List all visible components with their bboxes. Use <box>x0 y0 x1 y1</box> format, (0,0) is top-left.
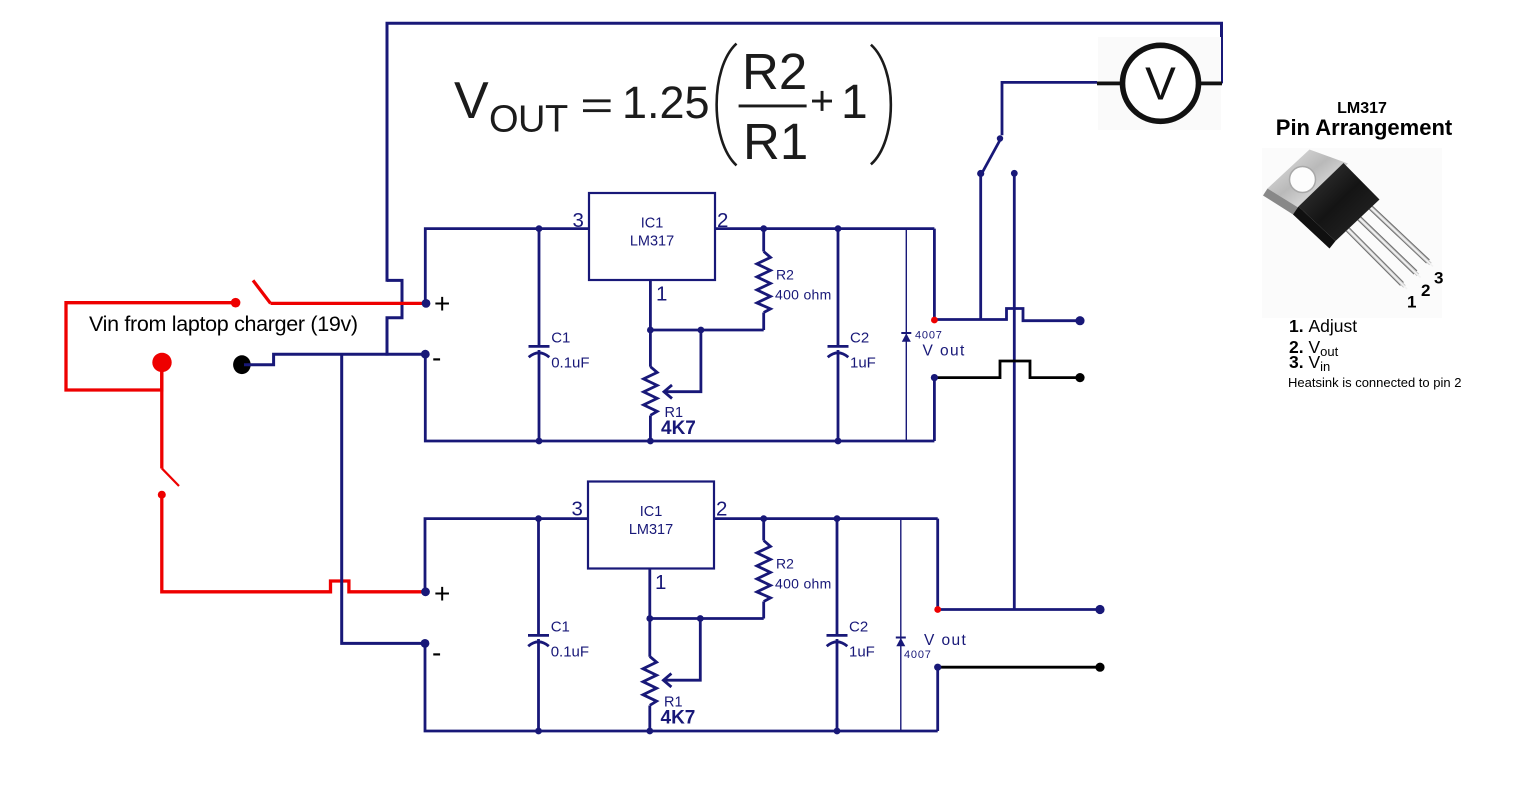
wire adjust mid line <box>650 329 763 332</box>
diode D1 symbol <box>901 332 911 334</box>
wire bottom rail <box>425 354 934 441</box>
svg-text:Heatsink is connected to pin 2: Heatsink is connected to pin 2 <box>1288 375 1461 390</box>
svg-text:3: 3 <box>572 498 583 521</box>
capacitor C1 <box>529 229 550 441</box>
svg-text:1uF: 1uF <box>850 355 876 372</box>
formula fraction bar <box>739 105 807 108</box>
node bottom output minus dot <box>1095 663 1104 672</box>
node C1 top dot <box>535 515 542 522</box>
op-amp U1 IC1 LM317 box <box>589 193 715 280</box>
svg-text:Pin Arrangement: Pin Arrangement <box>1276 115 1453 140</box>
wire navy top output plus with hop <box>934 309 1080 321</box>
node minus terminal dot <box>421 639 430 648</box>
node mid line dot right <box>698 327 705 334</box>
package metal tab <box>1268 150 1349 211</box>
formula equals sign <box>583 99 611 102</box>
node switch contact dot A <box>977 170 984 177</box>
wire right edge upper segment <box>933 229 936 321</box>
VOLTMETER <box>1097 37 1222 130</box>
wire top rail right of IC <box>715 517 938 520</box>
formula plus <box>812 100 832 103</box>
potentiometer wiper arrow <box>663 619 700 681</box>
diode D1 column wire <box>905 229 907 441</box>
wire red to top circuit plus <box>271 302 426 305</box>
svg-text:400 ohm: 400 ohm <box>775 287 832 303</box>
svg-text:1: 1 <box>656 283 667 306</box>
capacitor C1 <box>528 519 549 731</box>
wire navy vertical to bottom circuit minus <box>342 354 425 643</box>
wire right edge lower segment <box>936 667 939 731</box>
svg-text:-: - <box>432 637 441 668</box>
wire adjust mid line <box>650 617 764 620</box>
resistor R4 <box>762 519 765 541</box>
resistor R3 potentiometer zigzag <box>643 657 657 706</box>
node R4 top dot <box>760 515 767 522</box>
node C1 bottom dot <box>536 438 543 445</box>
wire top border from left vertical to voltmeter right lead <box>387 23 1222 282</box>
svg-text:LM317: LM317 <box>630 234 674 250</box>
transistor TO-220 package photo <box>1263 150 1433 290</box>
wire R3 to bottom rail <box>648 706 651 732</box>
svg-text:4007: 4007 <box>904 649 932 661</box>
node mid line dot right <box>697 615 704 622</box>
svg-text:2: 2 <box>1421 281 1430 300</box>
node R3 bottom dot <box>646 728 653 735</box>
TOP BORDER WIRE LOOP <box>387 23 1222 355</box>
node mid line dot left <box>647 327 654 334</box>
svg-text:1: 1 <box>841 76 868 129</box>
svg-text:R2: R2 <box>776 556 794 572</box>
node output minus navy dot <box>931 374 938 381</box>
wire red input top loop <box>66 303 235 390</box>
node switch contact dot B <box>1011 170 1018 177</box>
resistor R1 potentiometer zigzag <box>644 367 658 416</box>
svg-text:R1: R1 <box>743 113 808 170</box>
node plus terminal dot <box>422 299 431 308</box>
wire red down to switch S2 <box>160 368 163 469</box>
svg-text:1.25: 1.25 <box>622 77 710 128</box>
svg-text:1: 1 <box>1407 293 1416 312</box>
svg-text:+: + <box>434 578 450 609</box>
formula right paren <box>871 45 891 165</box>
package leg 2 <box>1359 218 1415 272</box>
voltmeter left lead <box>1097 82 1123 86</box>
svg-text:V out: V out <box>923 343 966 360</box>
package leg 3 <box>1370 207 1428 261</box>
package leg 1 <box>1348 230 1402 285</box>
svg-text:-: - <box>432 342 441 373</box>
svg-text:Vin from laptop charger (19v): Vin from laptop charger (19v) <box>89 312 358 336</box>
wire IC pin1 down <box>648 569 651 657</box>
node C2 top dot <box>835 225 842 232</box>
diode D2 column wire <box>900 519 902 731</box>
capacitor C4 <box>827 519 848 731</box>
svg-text:400 ohm: 400 ohm <box>775 576 832 592</box>
potentiometer wiper arrow <box>664 330 701 392</box>
tab mounting hole <box>1290 167 1316 193</box>
wire navy voltmeter left feed <box>1002 82 1097 135</box>
node switch pivot dot <box>997 135 1003 141</box>
wire navy from black terminal to minus rails <box>244 354 425 365</box>
wire black bottom output minus <box>938 666 1100 669</box>
node output plus red dot <box>934 606 941 613</box>
LM317 PIN ARRANGEMENT PANEL <box>1262 100 1461 390</box>
node plus terminal dot <box>421 587 430 596</box>
wire navy from contact B down to bottom output <box>1013 173 1016 609</box>
photo background tint <box>1262 148 1442 318</box>
svg-text:V: V <box>454 72 489 130</box>
wire top rail left of IC <box>425 229 589 304</box>
node black input terminal <box>233 355 251 374</box>
wire black top output minus with hop <box>934 361 1080 378</box>
svg-text:V out: V out <box>924 632 967 649</box>
wire top rail right of IC <box>715 227 934 230</box>
node mid line dot left <box>646 615 653 622</box>
node red switch contact dot <box>158 491 166 499</box>
node C4 bottom dot <box>834 728 841 735</box>
node top output plus dot <box>1075 316 1084 325</box>
voltmeter right lead <box>1198 82 1222 86</box>
resistor R2 <box>762 229 765 252</box>
svg-text:LM317: LM317 <box>629 522 673 538</box>
wire R1 to bottom rail <box>649 416 652 442</box>
svg-text:R2: R2 <box>776 267 794 283</box>
wire left jog crossing red plus line <box>387 280 402 355</box>
svg-text:4007: 4007 <box>915 329 943 341</box>
node bottom output plus dot <box>1095 605 1104 614</box>
node red junction dot big <box>152 353 171 372</box>
node C1 top dot <box>536 225 543 232</box>
node output plus red dot <box>931 317 938 324</box>
svg-text:1. Adjust: 1. Adjust <box>1289 316 1357 336</box>
wire navy from contact A down to top output <box>979 174 982 320</box>
svg-text:C1: C1 <box>551 619 570 636</box>
svg-text:4K7: 4K7 <box>661 418 696 439</box>
svg-text:4K7: 4K7 <box>661 708 696 729</box>
svg-text:3: 3 <box>573 209 584 232</box>
wire red to bottom circuit plus with hop <box>162 495 425 592</box>
op-amp U2 IC1 LM317 box <box>588 482 714 569</box>
RIGHT SIDE SWITCH AND OUTPUT WIRES <box>934 82 1104 671</box>
svg-text:2: 2 <box>716 498 727 521</box>
wire right edge upper segment <box>936 519 939 610</box>
node red terminal dot <box>231 298 241 308</box>
switch S1 blade (top red switch) <box>253 280 271 303</box>
wire top rail left of IC <box>425 519 589 594</box>
svg-text:0.1uF: 0.1uF <box>551 355 589 372</box>
svg-text:IC1: IC1 <box>641 216 664 232</box>
diode D2 symbol <box>896 637 906 639</box>
wire bottom rail <box>425 644 938 731</box>
svg-text:2: 2 <box>717 209 728 232</box>
node R2 top dot <box>760 225 767 232</box>
wire right edge lower segment <box>933 378 936 441</box>
node output minus navy dot <box>934 664 941 671</box>
svg-text:V: V <box>1145 58 1176 110</box>
switch S2 blade (left red switch) <box>162 468 179 486</box>
FORMULA Vout = 1.25(R2/R1 + 1) <box>454 43 891 170</box>
svg-text:C2: C2 <box>850 330 869 347</box>
svg-text:R2: R2 <box>742 43 807 100</box>
switch S3 selector blade <box>982 141 1000 173</box>
svg-text:3: 3 <box>1434 269 1443 288</box>
svg-text:C1: C1 <box>551 330 570 347</box>
svg-text:C2: C2 <box>849 619 868 636</box>
body lower side facet <box>1293 207 1336 249</box>
LEFT INPUT SECTION <box>66 280 425 643</box>
node minus terminal dot <box>421 350 430 359</box>
svg-text:OUT: OUT <box>489 99 568 141</box>
node C2 bottom dot <box>835 438 842 445</box>
node C1 bottom dot <box>535 728 542 735</box>
voltmeter circle V <box>1123 45 1199 121</box>
wire IC pin1 down <box>649 280 652 367</box>
formula left paren <box>717 44 737 166</box>
voltmeter background tint <box>1098 37 1221 130</box>
svg-text:1uF: 1uF <box>849 644 875 661</box>
TOP REGULATOR CIRCUIT <box>421 193 966 444</box>
node R1 bottom dot <box>647 438 654 445</box>
svg-text:1: 1 <box>655 571 666 594</box>
svg-text:+: + <box>434 288 450 319</box>
node top output minus dot <box>1075 373 1084 382</box>
node C4 top dot <box>834 515 841 522</box>
package plastic body <box>1299 163 1380 241</box>
tab left edge facet <box>1263 189 1303 218</box>
BOTTOM REGULATOR CIRCUIT <box>421 482 968 735</box>
wire navy bottom output plus <box>938 608 1100 611</box>
svg-text:0.1uF: 0.1uF <box>551 644 589 661</box>
capacitor C2 <box>828 229 849 441</box>
svg-text:IC1: IC1 <box>640 504 663 520</box>
